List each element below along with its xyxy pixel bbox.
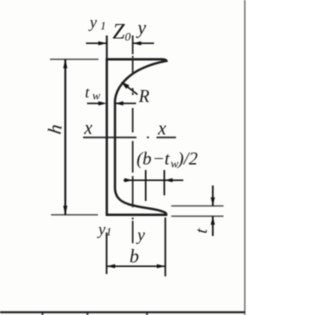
h dimension extension line top (50, 58, 99, 60)
table column tick 1 (42, 312, 44, 315)
svg-text:)/2: )/2 (177, 149, 198, 170)
svg-text:y: y (96, 221, 106, 238)
svg-text:y: y (136, 18, 147, 39)
svg-text:y: y (88, 15, 98, 32)
svg-text:y: y (135, 225, 145, 244)
Z0 left arrowhead (98, 41, 107, 45)
svg-text:1: 1 (100, 21, 106, 33)
b dimension right extension (164, 218, 166, 277)
svg-text:Z: Z (113, 19, 126, 44)
svg-text:R: R (138, 86, 150, 106)
svg-text:(b: (b (137, 149, 152, 170)
extension tick C (163, 170, 165, 195)
svg-text:w: w (92, 88, 100, 102)
dimension Z0 line (86, 42, 107, 44)
(b-tw)/2 left arrowhead (124, 178, 132, 182)
h dimension line (64, 59, 66, 215)
Z0 right arrowhead (133, 41, 142, 45)
right page border rule (244, 0, 246, 315)
svg-text:t: t (192, 227, 211, 235)
y1 axis extension above section (left tick of Z0) (106, 36, 108, 60)
svg-text:0: 0 (125, 30, 131, 44)
(b-tw)/2 right arrowhead (164, 178, 172, 182)
svg-text:x: x (157, 119, 167, 139)
svg-text:1: 1 (106, 226, 112, 238)
y centroid axis (dash-dot vertical) (132, 36, 134, 244)
channel section outline (107, 59, 167, 215)
t dimension line lower (212, 216, 214, 236)
h dimension extension line bottom (51, 214, 98, 216)
R leader arrow (125, 85, 138, 95)
extension tick B (145, 170, 147, 201)
h bottom arrowhead (63, 206, 67, 215)
svg-text:h: h (45, 123, 67, 135)
svg-text:b: b (130, 246, 140, 267)
dimension (b-tw)/2 line (124, 179, 184, 181)
svg-text:x: x (83, 119, 93, 139)
h top arrowhead (63, 59, 67, 68)
x centroidal axis (dash-dot horizontal) (83, 136, 176, 138)
t_w dimension (87, 102, 99, 104)
svg-text:−: − (153, 149, 165, 169)
table column tick 2 (146, 312, 148, 315)
t dimension line upper (212, 186, 214, 206)
t flange thickness extension lines (171, 205, 223, 207)
bottom table rule (0, 311, 245, 313)
b dimension line (107, 265, 166, 267)
b dimension left extension (106, 233, 108, 275)
svg-text:t: t (85, 84, 90, 101)
